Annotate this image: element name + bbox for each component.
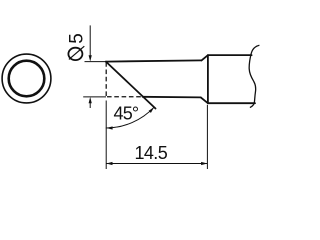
tip bottom visible edge [143,96,201,99]
bevel cut line [106,62,156,109]
dim Ø5 symbol slash [69,46,84,59]
dim 14.5 line [106,163,207,165]
dim 14.5 extension line right [206,105,208,169]
dim Ø5 symbol circle [68,48,82,60]
break squiggle [249,45,259,107]
dim Ø5 extension line top [85,61,106,63]
shank step face [207,55,209,103]
svg-text:14.5: 14.5 [134,143,167,163]
top chamfer to shank [202,55,208,60]
dim 14.5 extension line left [105,101,107,170]
dim Ø5 arrow up [89,97,92,103]
angle 45 arc [106,107,154,128]
dim 14.5 arrow right [201,162,207,165]
dim Ø5 extension line bottom [83,96,106,98]
front view outer circle [2,54,51,103]
angle 45 arrow right [149,107,155,113]
bottom chamfer to shank [201,97,208,103]
front view inner circle [9,61,45,97]
hidden bottom edge (dashed horizontal) [107,96,143,98]
shank top edge [208,54,252,56]
shank bottom edge [208,102,255,104]
hidden left face (dashed vertical) [105,62,107,97]
tip top edge [106,60,202,61]
dim Ø5 arrow down [89,55,92,61]
dim 14.5 arrow left [106,162,112,165]
svg-text:5: 5 [67,33,88,44]
dim Ø5 line lower [89,100,91,109]
dim Ø5 line upper [89,25,91,59]
angle 45 arrow left [106,126,112,129]
svg-text:45°: 45° [114,104,139,124]
